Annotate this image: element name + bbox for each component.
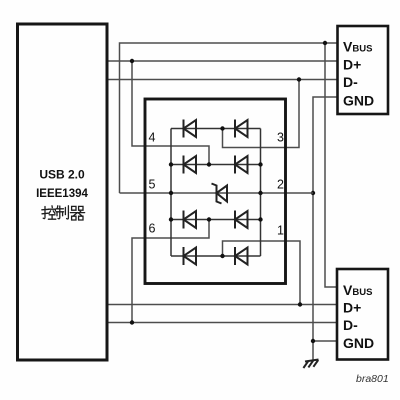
wire row1	[171, 128, 261, 130]
diode D4b row4 right	[235, 247, 248, 265]
wire D- branch to pin 3	[223, 80, 300, 148]
node D- junction	[297, 77, 301, 81]
diode D2a row2 left	[184, 156, 197, 174]
connector CON2 box	[337, 269, 388, 360]
器	[72, 206, 76, 210]
svg-text:5: 5	[149, 178, 156, 192]
wire row3	[171, 219, 261, 221]
node D- bottom junction	[130, 320, 134, 324]
制	[56, 206, 59, 209]
node row2 mid	[207, 162, 211, 166]
svg-text:3: 3	[277, 131, 284, 145]
控	[43, 207, 45, 219]
wire GND stub to CON2	[313, 340, 337, 342]
U1 internal rail B (pin2 GND rail)	[260, 129, 262, 257]
wire D+ branch to pin 4	[132, 61, 209, 165]
svg-text:IEEE1394: IEEE1394	[36, 188, 88, 200]
svg-text:D-: D-	[343, 74, 358, 90]
zener Z1	[212, 184, 228, 204]
node row3 right	[258, 217, 262, 221]
wire GND vertical rail	[313, 97, 337, 360]
node row2 left	[169, 162, 173, 166]
diode D3a row3 left	[184, 211, 197, 229]
wire D+ top: controller to CON1 D+	[107, 60, 337, 62]
svg-text:4: 4	[149, 131, 156, 145]
CON2 pin labels	[343, 282, 374, 351]
node row3 left	[169, 217, 173, 221]
svg-text:USB 2.0: USB 2.0	[39, 168, 85, 182]
svg-text:bra801: bra801	[356, 373, 389, 385]
wire D- top: controller to CON1 D-	[107, 79, 337, 81]
svg-text:D+: D+	[343, 57, 361, 73]
node GND junction CON2	[311, 339, 315, 343]
svg-text:6: 6	[149, 222, 156, 236]
svg-text:D+: D+	[343, 300, 361, 316]
wire row4	[171, 255, 261, 257]
diode D2b row2 right	[235, 156, 248, 174]
diode D4a row4 left	[184, 247, 197, 265]
svg-text:GND: GND	[343, 335, 374, 351]
node rail A pin5	[169, 191, 173, 195]
wire D+ bottom: controller to CON2 D+	[107, 304, 337, 306]
node row4 mid	[220, 254, 224, 258]
diode D3b row3 right	[235, 211, 248, 229]
node D+ bottom junction	[298, 302, 302, 306]
wire VBUS net: pin5 left vertical + top run to CON1	[120, 43, 338, 193]
node VBUS junction top	[323, 41, 327, 45]
wire row2	[171, 164, 261, 166]
ground	[303, 360, 318, 369]
diode D1a row1 left	[184, 120, 197, 138]
node row1 mid	[220, 126, 224, 130]
connector CON1 box	[338, 26, 389, 114]
wire D- bottom branch to pin 6	[132, 220, 209, 323]
USB controller label	[36, 168, 88, 221]
node D+ junction	[130, 59, 134, 63]
wire D+ bottom branch to pin 1	[223, 241, 301, 305]
diode D1b row1 right	[235, 120, 248, 138]
svg-text:D-: D-	[343, 317, 358, 333]
node row3 mid	[207, 217, 211, 221]
op chip U1 box	[145, 99, 286, 284]
wire pin5 to pin2 line through chip	[120, 192, 314, 194]
CON1 pin labels	[343, 39, 374, 109]
USB controller box	[18, 24, 108, 360]
svg-text:GND: GND	[343, 93, 374, 109]
svg-text:1: 1	[277, 224, 284, 238]
wire VBUS drop to CON2	[325, 43, 337, 287]
node GND junction pin2	[311, 191, 315, 195]
U1 internal rail A (pin5 VBUS rail)	[170, 129, 172, 257]
wire D- bottom: controller to CON2 D-	[107, 322, 337, 324]
svg-text:2: 2	[277, 178, 284, 192]
node row2 right	[258, 162, 262, 166]
node rail B pin2	[258, 191, 262, 195]
